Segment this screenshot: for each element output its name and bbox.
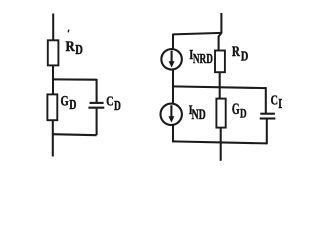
wire right center bottom stub xyxy=(220,127,222,160)
svg-text:NRD: NRD xyxy=(193,52,213,67)
svg-text:G: G xyxy=(61,93,69,109)
wire right center top stub xyxy=(219,13,222,51)
svg-text:ND: ND xyxy=(192,107,206,123)
current source IND xyxy=(161,104,182,125)
wire left top stub xyxy=(52,14,54,42)
svg-text:D: D xyxy=(114,98,121,113)
capacitor CD (right) xyxy=(260,114,276,119)
label INRD xyxy=(189,47,213,67)
label IND xyxy=(189,103,206,123)
svg-text:D: D xyxy=(278,96,282,111)
wire left middle xyxy=(52,65,54,95)
label GD (right) xyxy=(232,101,247,121)
resistor RD (right) xyxy=(215,51,225,73)
wire left branch upper (to INRD) xyxy=(172,34,174,50)
wire right top rail xyxy=(173,33,222,35)
svg-text:D: D xyxy=(240,106,247,121)
svg-text:D: D xyxy=(69,98,76,113)
label CD (right) xyxy=(271,93,285,112)
svg-text:R: R xyxy=(66,39,76,55)
wire right center middle xyxy=(219,72,221,99)
svg-text:G: G xyxy=(232,101,240,118)
stray mark (apostrophe speck) xyxy=(67,30,70,33)
wire bottom rail of left parallel loop xyxy=(52,134,97,135)
conductance GD (right) xyxy=(216,99,225,128)
current source INRD xyxy=(161,49,182,70)
wire right bottom rail xyxy=(172,141,267,143)
label RD (right) xyxy=(232,44,249,63)
wire left branch between sources xyxy=(172,70,174,104)
wire top rail of left parallel loop xyxy=(52,78,96,80)
svg-text:C: C xyxy=(271,93,278,108)
capacitor CD (left) xyxy=(88,103,104,108)
svg-text:D: D xyxy=(241,48,249,63)
label RD (left) xyxy=(66,39,84,57)
wire capacitor branch bottom (right) xyxy=(266,119,268,144)
wire left bottom xyxy=(52,120,54,157)
label GD (left) xyxy=(61,93,77,113)
wire capacitor branch top (right) xyxy=(265,87,267,113)
svg-text:R: R xyxy=(232,44,240,60)
wire capacitor branch bottom (left) xyxy=(96,109,98,136)
wire capacitor branch top (left) xyxy=(96,79,98,102)
wire right middle rail xyxy=(172,86,266,88)
label CD (left) xyxy=(106,93,121,112)
conductance GD (left) xyxy=(47,94,57,120)
wire left branch lower (to bottom rail) xyxy=(172,124,174,142)
svg-text:D: D xyxy=(75,42,83,57)
resistor RD (left) xyxy=(48,40,59,65)
svg-text:C: C xyxy=(106,93,113,108)
